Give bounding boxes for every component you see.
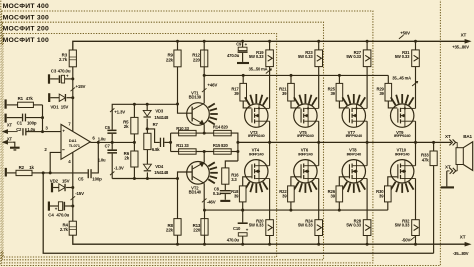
voltage slash +50V: [399, 35, 404, 39]
resistor R6 2k: [133, 142, 135, 151]
svg-text:МОСФИТ 300: МОСФИТ 300: [3, 14, 49, 21]
resistor R22 39: [291, 177, 301, 186]
svg-text:-15V: -15V: [75, 191, 84, 196]
mosfet VT9 IRFP9240: [391, 104, 414, 127]
capacitor C5 100p: [50, 172, 87, 174]
resistor R20 5W 0.33: [269, 179, 271, 220]
resistor R24 5W 0.33: [318, 179, 320, 220]
heatsink VT4: [263, 182, 268, 190]
svg-text:XT: XT: [460, 235, 466, 240]
capacitor C6 1.0u: [107, 130, 116, 132]
svg-text:XT: XT: [461, 33, 467, 38]
svg-text:VD2: VD2: [50, 178, 59, 183]
svg-text:C6: C6: [105, 125, 111, 130]
heatsink VT6: [312, 182, 317, 190]
svg-text:R2: R2: [19, 165, 25, 170]
wire R7 bypass tap: [147, 129, 160, 143]
mosfet VT6 IRFP240: [294, 160, 317, 183]
svg-text:5W 0.33: 5W 0.33: [249, 223, 264, 228]
resistor R4 2.7k: [69, 221, 76, 235]
heatsink VT8: [360, 182, 365, 190]
svg-text:5W 0.33: 5W 0.33: [346, 223, 361, 228]
resistor R14 820: [204, 132, 214, 134]
svg-text:1N4148: 1N4148: [154, 170, 169, 175]
svg-text:5W 0.33: 5W 0.33: [395, 223, 410, 228]
wire upper gate rail: [204, 74, 388, 76]
svg-text:C9: C9: [236, 42, 242, 47]
svg-text:1.0u: 1.0u: [98, 136, 106, 141]
svg-text:IRFP9240: IRFP9240: [346, 133, 363, 138]
module box MOSFIT 300: [2, 11, 373, 263]
left border fade: [0, 45, 5, 251]
resistor R5 2k: [133, 104, 135, 117]
svg-text:5W 0.33: 5W 0.33: [298, 54, 313, 59]
ground C9: [237, 62, 249, 64]
resistor R27 5W 0.33: [366, 40, 369, 43]
node feedback junction: [42, 171, 45, 174]
svg-text:+46V: +46V: [207, 82, 217, 87]
svg-text:BA1: BA1: [463, 134, 472, 139]
svg-text:C5: C5: [78, 177, 84, 182]
svg-text:220: 220: [193, 57, 201, 62]
resistor R2 1k: [7, 172, 16, 174]
svg-text:2k: 2k: [124, 156, 129, 161]
svg-text:IRFP9240: IRFP9240: [394, 133, 411, 138]
resistor R25 39: [338, 74, 341, 77]
terminal bar R2: [5, 168, 7, 177]
resistor R17 39: [242, 74, 245, 77]
svg-text:+35...80V: +35...80V: [452, 45, 469, 50]
svg-text:IRFP240: IRFP240: [347, 151, 362, 156]
wire speaker return: [446, 171, 448, 187]
voltage slash +1.3V: [110, 108, 114, 112]
wire +1.3V rail: [112, 104, 177, 129]
svg-text:C10: C10: [233, 226, 241, 231]
capacitor C1 100p: [7, 117, 22, 119]
capacitor C3 470.0u: [48, 74, 50, 83]
resistor R29 39: [387, 75, 389, 83]
svg-text:МОСФИТ 200: МОСФИТ 200: [3, 26, 49, 33]
svg-text:470.0u: 470.0u: [56, 212, 69, 217]
heatsink VT10: [409, 182, 414, 190]
wire emitter node vertical: [170, 133, 172, 151]
svg-text:470.0u: 470.0u: [227, 238, 240, 243]
svg-text:-50V: -50V: [402, 238, 411, 243]
svg-text:15V: 15V: [61, 104, 69, 109]
svg-text:1N4148: 1N4148: [154, 115, 169, 120]
resistor R26 39: [339, 177, 349, 186]
current slash 35...50 mA: [266, 69, 272, 74]
svg-text:2.7k: 2.7k: [59, 57, 68, 62]
resistor R8 22k: [177, 179, 179, 219]
arrow -50V XT terminal: [465, 242, 470, 246]
wire -50V rail: [73, 235, 466, 244]
resistor R16 3.3: [222, 168, 229, 184]
svg-text:5W 0.33: 5W 0.33: [346, 54, 361, 59]
diode VD4 1N4148: [146, 150, 148, 165]
wire output node vertical: [237, 142, 239, 161]
svg-text:VD3: VD3: [155, 108, 164, 113]
capacitor C9 470.0u: [241, 40, 244, 43]
voltage slash -50V: [410, 237, 415, 241]
voltage slash +15V: [71, 87, 76, 91]
svg-text:R11 33: R11 33: [176, 143, 189, 148]
arrow +50V XT terminal: [465, 40, 470, 44]
svg-text:15V: 15V: [62, 178, 70, 183]
svg-text:МОСФИТ 400: МОСФИТ 400: [3, 3, 49, 10]
wire +50V rail: [73, 41, 466, 50]
wire +15V supply line upper: [72, 67, 74, 132]
svg-text:1.0u: 1.0u: [98, 158, 106, 163]
svg-text:47k: 47k: [26, 96, 34, 101]
svg-text:22k: 22k: [166, 57, 174, 62]
connector chevrons output hot: [449, 139, 452, 145]
svg-text:35...45 mA: 35...45 mA: [392, 75, 411, 80]
transistor VT1 BD139: [187, 103, 210, 126]
wire Zobel tap: [225, 161, 238, 168]
mosfet VT4 IRFP240: [245, 160, 268, 183]
svg-text:-46V: -46V: [207, 200, 216, 205]
mosfet VT5 IRFP9240: [294, 104, 317, 127]
resistor R11 33: [171, 151, 179, 153]
arrow input signal: [5, 131, 18, 133]
mosfet VT10 IRFP240: [391, 160, 414, 183]
ground speaker return: [441, 186, 454, 188]
svg-text:+50V: +50V: [400, 31, 410, 36]
resistor R30 39: [388, 177, 398, 186]
svg-text:R7: R7: [153, 122, 159, 127]
ground input: [10, 147, 20, 149]
wire input node vertical: [42, 105, 44, 132]
resistor R1 47k: [7, 104, 18, 106]
svg-text:IRFP9240: IRFP9240: [297, 133, 314, 138]
svg-text:22k: 22k: [166, 228, 174, 233]
resistor R19 5W 0.33: [268, 40, 271, 43]
svg-text:XT: XT: [7, 123, 13, 128]
ground Zobel: [220, 200, 230, 202]
heatsink VT3: [245, 97, 250, 105]
svg-text:-1.3V: -1.3V: [114, 165, 124, 170]
resistor R9 22k: [176, 40, 179, 43]
svg-text:5W 0.33: 5W 0.33: [395, 54, 410, 59]
svg-text:-35...80V: -35...80V: [453, 251, 469, 256]
current slash 35...45 mA: [412, 81, 418, 86]
svg-text:47k: 47k: [422, 157, 430, 162]
voltage slash -15V: [71, 196, 76, 200]
svg-text:470.0u: 470.0u: [58, 69, 71, 74]
module box MOSFIT 200: [2, 22, 323, 260]
svg-text:0.1u: 0.1u: [213, 191, 221, 196]
heatsink VT9: [391, 97, 396, 105]
svg-text:C2: C2: [16, 127, 22, 132]
svg-text:C3: C3: [51, 69, 57, 74]
capacitor bias bypass: [160, 138, 161, 147]
mosfet VT3 IRFP9240: [245, 104, 268, 127]
arrow input ground: [5, 141, 13, 143]
svg-text:BD140: BD140: [189, 190, 202, 195]
resistor R12 220: [203, 40, 206, 43]
svg-text:1k: 1k: [29, 165, 34, 170]
svg-text:+15V: +15V: [76, 84, 86, 89]
heatsink VT5: [294, 97, 299, 105]
capacitor C10 470.0u: [241, 209, 244, 212]
op-amp DA1 TL071: [61, 124, 90, 159]
svg-text:100p: 100p: [27, 121, 37, 126]
svg-text:35...50 mA: 35...50 mA: [249, 67, 268, 72]
svg-text:R10 33: R10 33: [176, 126, 189, 131]
capacitor C2 1.0u: [22, 128, 23, 135]
svg-text:1.0u: 1.0u: [27, 127, 35, 132]
resistor R33 47k: [432, 141, 435, 144]
svg-text:C4: C4: [48, 212, 54, 217]
resistor R3 2.7k: [69, 50, 76, 67]
mosfet VT8 IRFP240: [342, 160, 365, 183]
svg-text:IRFP9240: IRFP9240: [248, 133, 265, 138]
svg-text:2k: 2k: [124, 124, 129, 129]
resistor R32 5W 0.33: [415, 179, 417, 220]
wire lower gate rail: [205, 209, 388, 211]
svg-text:2.7k: 2.7k: [60, 227, 69, 232]
voltage slash -1.3V: [110, 171, 114, 175]
svg-text:IRFP240: IRFP240: [249, 151, 264, 156]
svg-text:C7: C7: [105, 144, 111, 149]
module box MOSFIT 100: [3, 34, 276, 258]
svg-text:IRFP240: IRFP240: [395, 151, 410, 156]
resistor R31 5W 0.33: [414, 40, 417, 43]
wire -1.3V rail: [112, 178, 177, 180]
svg-text:R1: R1: [18, 96, 24, 101]
mosfet VT7 IRFP9240: [342, 104, 365, 127]
transistor VT2 BD140: [187, 162, 210, 185]
speaker BA1: [456, 148, 463, 165]
heatsink VT2: [208, 162, 215, 166]
svg-text:6.8k: 6.8k: [152, 147, 160, 152]
zener VD1 15V: [48, 93, 50, 102]
svg-text:XT: XT: [445, 134, 451, 139]
capacitor C7 1.0u: [111, 142, 113, 149]
wire -15V supply line lower: [72, 152, 74, 221]
svg-text:МОСФИТ 100: МОСФИТ 100: [3, 37, 49, 44]
svg-text:470.0u: 470.0u: [227, 53, 240, 58]
resistor R13 220: [204, 210, 206, 219]
wire feedback bottom run: [43, 173, 433, 253]
svg-text:R14 820: R14 820: [213, 125, 229, 130]
svg-text:220: 220: [193, 228, 201, 233]
svg-text:BD139: BD139: [189, 95, 202, 100]
svg-text:C1: C1: [17, 121, 23, 126]
resistor R23 5W 0.33: [317, 40, 320, 43]
svg-text:+1.3V: +1.3V: [114, 109, 125, 114]
wire op-amp output: [90, 141, 134, 143]
heatsink VT7: [342, 97, 347, 105]
zener VD2 15V: [51, 183, 53, 193]
resistor R28 5W 0.33: [366, 179, 368, 220]
svg-text:IRFP240: IRFP240: [298, 151, 313, 156]
resistor R7 6.8k: [144, 133, 151, 149]
svg-text:VD4: VD4: [155, 164, 164, 169]
svg-text:5W 0.33: 5W 0.33: [249, 54, 264, 59]
capacitor C4 470.0u: [48, 202, 50, 211]
wire output rail: [238, 141, 451, 143]
heatsink VT1: [208, 104, 215, 108]
svg-text:R15 820: R15 820: [213, 143, 229, 148]
svg-text:3.3: 3.3: [231, 177, 237, 182]
svg-text:5W 0.33: 5W 0.33: [298, 223, 313, 228]
svg-text:VD1: VD1: [50, 104, 59, 109]
diode VD3 1N4148: [146, 104, 148, 110]
resistor R15 820: [204, 151, 214, 153]
terminal bar input C1: [5, 114, 7, 123]
voltage slash -46V: [202, 199, 207, 203]
connector chevrons output return: [447, 170, 450, 172]
svg-text:TL071: TL071: [69, 143, 81, 148]
voltage slash +46V: [202, 88, 207, 92]
resistor R18 39: [243, 177, 252, 186]
terminal bar input R1: [5, 99, 7, 108]
svg-text:100p: 100p: [92, 177, 102, 182]
resistor R10 33: [171, 132, 179, 134]
capacitor C8 0.1u: [224, 184, 226, 190]
resistor R21 39: [290, 74, 293, 77]
wire pin 2 stub: [50, 152, 61, 173]
